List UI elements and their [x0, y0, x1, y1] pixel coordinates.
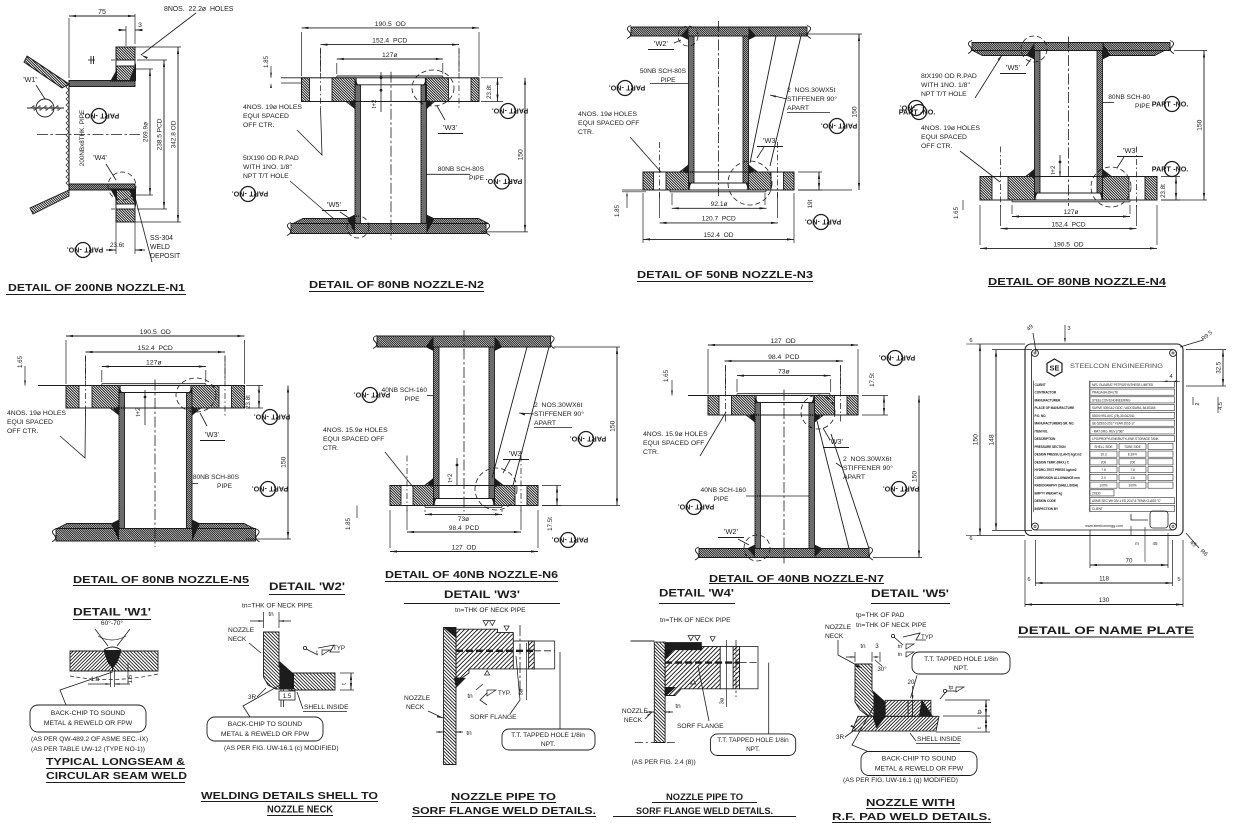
N3 part-no stiffener right — [899, 105, 936, 120]
N4 dim 190.5 OD — [980, 247, 1157, 249]
svg-text:STEELCON ENGINEERING: STEELCON ENGINEERING — [1092, 398, 1131, 402]
svg-text:EMPTY WEIGHT kg: EMPTY WEIGHT kg — [1035, 491, 1063, 495]
svg-text:NECK: NECK — [825, 633, 844, 640]
N6 centerline — [390, 486, 538, 506]
name plate inner rect — [1032, 350, 1177, 531]
N7 dim 127 OD — [708, 344, 858, 346]
svg-text:2 NOS.30WX6t: 2 NOS.30WX6t — [534, 402, 582, 409]
svg-text:PIPE: PIPE — [469, 175, 485, 182]
svg-text:190.5 OD: 190.5 OD — [140, 329, 171, 336]
name plate dim 70 — [1089, 530, 1091, 568]
svg-text:WITH 1NO. 1/8": WITH 1NO. 1/8" — [921, 82, 970, 89]
svg-text:tn=THK OF NECK PIPE: tn=THK OF NECK PIPE — [455, 607, 526, 614]
N3 dim 150 — [798, 33, 862, 35]
N2 dim 127 dia — [337, 58, 443, 60]
detail W5 group — [803, 612, 1010, 823]
N1 dim 3 — [125, 26, 127, 46]
W5 tp t dims right — [943, 715, 990, 717]
svg-text:127 OD: 127 OD — [452, 545, 477, 552]
svg-text:100%: 100% — [1099, 484, 1107, 488]
svg-text:CTR.: CTR. — [323, 445, 339, 452]
svg-text:50NB SCH-80S: 50NB SCH-80S — [640, 68, 687, 75]
svg-text:(AS PER QW-489.2 OF ASME SEC.-: (AS PER QW-489.2 OF ASME SEC.-IX) — [31, 736, 148, 743]
svg-text:PART: PART — [271, 412, 291, 421]
W3 weld symbols top — [483, 621, 495, 626]
N1 flange — [116, 47, 135, 81]
svg-text:150: 150 — [1197, 119, 1204, 131]
N3 part-no pipe — [609, 81, 646, 96]
svg-text:DESCRIPTION: DESCRIPTION — [1035, 437, 1056, 441]
N6 dim 127 OD — [390, 551, 538, 553]
N5 dim 152.4 PCD — [86, 351, 226, 353]
N2 part-no balloon pipe — [486, 174, 523, 189]
svg-text:190.5 OD: 190.5 OD — [375, 21, 406, 28]
svg-text:tn: tn — [268, 611, 274, 618]
N2 centerline — [302, 78, 480, 102]
svg-text:NOZZLE PIPE TO: NOZZLE PIPE TO — [666, 792, 743, 803]
N1 part-no balloon upper — [83, 109, 120, 124]
W2 backchip box — [207, 717, 323, 741]
svg-text:98.4 PCD: 98.4 PCD — [768, 354, 799, 361]
W4 neck bottom centerline — [635, 742, 675, 744]
svg-text:-NO.: -NO. — [805, 217, 820, 226]
svg-text:PIPE: PIPE — [404, 396, 420, 403]
svg-text:-NO.: -NO. — [486, 177, 501, 186]
svg-text:127ø: 127ø — [1063, 209, 1078, 216]
N1 weld deposit marks — [129, 63, 136, 81]
N1 bolt hole dashed lines — [111, 59, 140, 61]
svg-text:TYP: TYP — [333, 645, 345, 652]
W3 tapped hole box — [502, 729, 595, 750]
svg-text:T.T. TAPPED HOLE 1/8in: T.T. TAPPED HOLE 1/8in — [511, 732, 585, 739]
N6 dim t+2 — [456, 458, 458, 486]
svg-text:190.5 OD: 190.5 OD — [1053, 241, 1083, 248]
svg-text:-NO.: -NO. — [354, 390, 369, 399]
N7 part-no stiffener — [883, 482, 920, 497]
svg-text:MANUFACTURER: MANUFACTURER — [1035, 398, 1062, 402]
svg-text:T.T. TAPPED HOLE 1/8in: T.T. TAPPED HOLE 1/8in — [924, 656, 998, 663]
N3 extension below — [671, 193, 673, 205]
W2 weld fillet — [279, 661, 294, 689]
W5 backchip box — [861, 752, 977, 776]
name plate table — [1033, 381, 1035, 513]
svg-text:PART: PART — [822, 217, 842, 226]
svg-text:'W3': 'W3' — [1123, 146, 1137, 155]
name plate group — [966, 324, 1226, 637]
svg-text:t: t — [341, 683, 348, 685]
svg-text:DESIGN TEMP. (MAX.) C: DESIGN TEMP. (MAX.) C — [1035, 460, 1070, 464]
svg-text:-NO.: -NO. — [678, 502, 693, 511]
svg-text:8.3/FV: 8.3/FV — [1128, 453, 1138, 457]
svg-text:70: 70 — [1126, 558, 1133, 565]
svg-text:TYPICAL LONGSEAM &: TYPICAL LONGSEAM & — [46, 756, 185, 768]
svg-text:-NO.: -NO. — [1173, 165, 1188, 174]
N5 extension lines — [65, 340, 67, 384]
svg-text:(AS PER FIG. UW-16.1 (q) MODIF: (AS PER FIG. UW-16.1 (q) MODIFIED) — [843, 777, 958, 784]
W4 bolt centerline — [735, 640, 737, 697]
svg-text:92.1ø: 92.1ø — [711, 201, 728, 208]
svg-text:152.4 PCD: 152.4 PCD — [138, 345, 173, 352]
svg-text:PART: PART — [695, 502, 715, 511]
N5 part-no pipe — [252, 482, 289, 497]
svg-text:PIPE: PIPE — [217, 483, 233, 490]
svg-text:NECK: NECK — [406, 704, 425, 711]
N3 dim 92.1 — [672, 207, 767, 209]
svg-text:NPT.: NPT. — [541, 741, 555, 748]
svg-text:DEPOSIT: DEPOSIT — [150, 253, 181, 260]
detail N2 group — [216, 21, 567, 292]
svg-text:PRAGA 84-294 (78: PRAGA 84-294 (78 — [1092, 391, 1118, 395]
svg-text:tp=THK OF PAD: tp=THK OF PAD — [856, 612, 905, 619]
N3 part-no flange — [805, 215, 842, 230]
steelcon logo — [1047, 359, 1062, 376]
svg-text:tn=THK OF NECK PIPE: tn=THK OF NECK PIPE — [856, 622, 927, 629]
svg-text:'W5': 'W5' — [1006, 63, 1020, 72]
svg-text:NPT.: NPT. — [954, 665, 968, 672]
svg-text:SURVE 539/1&2 GIDC, VADODARA,: SURVE 539/1&2 GIDC, VADODARA, 84-83165 — [1092, 406, 1156, 410]
svg-text:PART: PART — [84, 245, 104, 254]
W4 weld bottom fillet — [665, 687, 676, 697]
svg-text:-NO.: -NO. — [879, 353, 894, 362]
N1 groove detail small — [88, 59, 95, 61]
svg-text:PART: PART — [371, 390, 391, 399]
svg-text:t+2: t+2 — [135, 407, 142, 417]
svg-text:27830: 27830 — [1092, 491, 1101, 495]
W1 weld bead — [104, 650, 121, 668]
svg-text:45: 45 — [1152, 541, 1158, 546]
svg-text:MANUFACTURERS SR. NO.: MANUFACTURERS SR. NO. — [1035, 422, 1075, 426]
svg-text:PART: PART — [900, 484, 920, 493]
N4 dim t+2 — [1059, 155, 1061, 177]
svg-text:CLIENT: CLIENT — [1092, 507, 1103, 511]
W3 tapped hole dashed — [456, 650, 534, 652]
svg-text:CTR.: CTR. — [578, 129, 594, 136]
N7 dim 150 — [873, 557, 922, 559]
N3 stiffener — [750, 36, 776, 163]
N2 flange left extension — [281, 77, 302, 79]
N1 shell vertical line — [68, 84, 70, 190]
svg-text:METAL & REWELD OR FPW: METAL & REWELD OR FPW — [44, 720, 133, 727]
svg-text:tn: tn — [467, 693, 473, 700]
N6 dim 150 — [542, 505, 620, 507]
svg-text:M/S. GUJARAT PETROSYNTHESE LIM: M/S. GUJARAT PETROSYNTHESE LIMITED — [1092, 383, 1154, 387]
svg-text:-NO.: -NO. — [492, 106, 507, 115]
svg-text:tn: tn — [675, 703, 681, 710]
svg-text:HYDRO-TEST PRESS kg/cm2: HYDRO-TEST PRESS kg/cm2 — [1035, 468, 1077, 472]
svg-text:73ø: 73ø — [458, 516, 469, 523]
N2 extension lines — [301, 32, 303, 76]
N4 dim 150 — [1174, 50, 1207, 52]
svg-text:EQUI SPACED: EQUI SPACED — [921, 134, 967, 141]
N1 dim 238.5 PCD — [140, 59, 167, 61]
detail N3 group — [542, 21, 936, 282]
svg-text:200NBx8THK. PIPE: 200NBx8THK. PIPE — [79, 110, 86, 166]
N1 shell break top-left — [27, 56, 69, 84]
svg-text:SORF FLANGE: SORF FLANGE — [470, 714, 517, 721]
svg-text:1.5: 1.5 — [283, 693, 292, 700]
svg-text:6: 6 — [969, 536, 972, 542]
svg-text:16.3: 16.3 — [1100, 453, 1106, 457]
svg-text:23.8t: 23.8t — [486, 85, 493, 99]
svg-text:'W3': 'W3' — [829, 437, 843, 446]
svg-text:EQUI SPACED OFF: EQUI SPACED OFF — [643, 440, 704, 447]
svg-text:19t: 19t — [807, 199, 814, 208]
svg-text:NPT T/T HOLE: NPT T/T HOLE — [921, 91, 967, 98]
W3 weld top black — [444, 628, 457, 639]
svg-text:PLACE OF MANUFACTURE: PLACE OF MANUFACTURE — [1035, 406, 1075, 410]
svg-text:STIFFENER 90°: STIFFENER 90° — [843, 464, 893, 472]
svg-text:3: 3 — [1067, 326, 1070, 332]
svg-text:1.85: 1.85 — [263, 55, 270, 68]
svg-text:269.9ø: 269.9ø — [143, 122, 150, 142]
svg-text:5tX190 OD R.PAD: 5tX190 OD R.PAD — [243, 155, 299, 162]
svg-text:100%: 100% — [1128, 484, 1136, 488]
svg-text:CORROSION ALLOWANCE mm: CORROSION ALLOWANCE mm — [1035, 476, 1081, 480]
svg-text:23.8t: 23.8t — [1160, 184, 1167, 198]
svg-text:P.O. NO.: P.O. NO. — [1035, 414, 1047, 418]
svg-text:4.5: 4.5 — [1218, 402, 1224, 410]
svg-text:3R: 3R — [248, 694, 257, 701]
N1 part-no balloon lower — [67, 243, 104, 258]
svg-text:80NB SCH-80S: 80NB SCH-80S — [193, 474, 240, 481]
svg-text:TYP: TYP — [921, 634, 933, 641]
svg-text:STIFFENER 90°: STIFFENER 90° — [787, 95, 837, 103]
svg-text:PART: PART — [626, 83, 646, 92]
N6 dim 98.4 PCD — [407, 531, 521, 533]
svg-text:METAL & REWELD OR FPW: METAL & REWELD OR FPW — [221, 731, 310, 738]
detail W2 group — [201, 581, 378, 816]
W2 1.5 box — [279, 691, 295, 700]
svg-text:8NOS. 22.2ø HOLES: 8NOS. 22.2ø HOLES — [164, 6, 234, 13]
N2 dim 190.5 OD — [302, 27, 480, 29]
svg-text:tn: tn — [466, 730, 472, 737]
svg-text:PIPE: PIPE — [1135, 103, 1151, 110]
svg-text:127 OD: 127 OD — [770, 338, 795, 345]
svg-text:-NO.: -NO. — [570, 434, 585, 443]
svg-text:PART: PART — [269, 484, 289, 493]
svg-text:WELD: WELD — [150, 244, 170, 251]
svg-text:DETAIL OF 40NB NOZZLE-N6: DETAIL OF 40NB NOZZLE-N6 — [385, 570, 559, 581]
W2 t dim right — [340, 672, 354, 674]
svg-text:150: 150 — [518, 149, 525, 161]
N5 label W3 — [200, 413, 207, 426]
detail N1 group — [0, 6, 234, 295]
svg-text:PART: PART — [896, 353, 916, 362]
W5 tapped hole box — [912, 652, 1010, 674]
N1 centerline — [37, 134, 140, 136]
N6 stiffener — [492, 347, 527, 478]
svg-text:7.8: 7.8 — [1130, 468, 1135, 472]
N5 dim 127 dia — [102, 366, 206, 368]
svg-text:NOZZLE: NOZZLE — [404, 695, 431, 702]
svg-text:127ø: 127ø — [146, 360, 162, 367]
svg-text:200: 200 — [1101, 460, 1107, 464]
svg-text:NPT T/T HOLE: NPT T/T HOLE — [243, 173, 289, 180]
W3 centerline vertical — [519, 625, 521, 695]
svg-text:EQUI SPACED: EQUI SPACED — [243, 113, 289, 120]
svg-text:SS-304: SS-304 — [150, 235, 173, 242]
svg-text:342.8 OD: 342.8 OD — [171, 120, 178, 148]
svg-text:DETAIL 'W4': DETAIL 'W4' — [659, 588, 734, 600]
svg-text:SHELL INSIDE: SHELL INSIDE — [917, 736, 962, 743]
svg-text:127ø: 127ø — [382, 52, 398, 59]
svg-text:-NO.: -NO. — [609, 83, 624, 92]
svg-text:4NOS. 19ø HOLES: 4NOS. 19ø HOLES — [7, 410, 66, 417]
svg-text:NECK: NECK — [624, 717, 643, 724]
N5 dim 190.5 OD — [66, 335, 245, 337]
svg-text:PART: PART — [1152, 100, 1172, 109]
N6 part-no pipe — [354, 388, 391, 403]
svg-text:98.4 PCD: 98.4 PCD — [449, 525, 480, 532]
svg-text:tp: tp — [949, 685, 954, 691]
svg-text:(AS PER TABLE UW-12 (TYPE NO-1: (AS PER TABLE UW-12 (TYPE NO-1)) — [31, 746, 145, 753]
svg-text:'W1': 'W1' — [23, 75, 37, 84]
svg-text:ASME SEC VIII DIV-1 ED 2017 &: ASME SEC VIII DIV-1 ED 2017 & TEMA CLASS… — [1092, 499, 1161, 503]
svg-text:TYP.: TYP. — [498, 690, 511, 697]
N6 extension below — [424, 510, 426, 512]
svg-text:152.4 PCD: 152.4 PCD — [1051, 222, 1085, 229]
N4 part-no pipe — [1152, 97, 1189, 112]
svg-text:(AS PER FIG. 2.4 (8)): (AS PER FIG. 2.4 (8)) — [632, 759, 696, 766]
svg-text:75: 75 — [98, 9, 106, 16]
svg-text:SHELL INSIDE: SHELL INSIDE — [304, 704, 349, 711]
W3 weld bottom fillet — [454, 678, 466, 688]
svg-text:APART: APART — [534, 420, 556, 427]
name plate outer rect — [1025, 344, 1183, 536]
svg-text:238.5 PCD: 238.5 PCD — [157, 118, 164, 150]
svg-text:-NO.: -NO. — [1173, 100, 1188, 109]
svg-text:2.0: 2.0 — [1101, 476, 1106, 480]
svg-text:t+2: t+2 — [371, 99, 378, 109]
svg-text:118: 118 — [1099, 576, 1109, 583]
svg-text:150: 150 — [281, 456, 288, 468]
svg-text:DETAIL 'W1': DETAIL 'W1' — [73, 607, 151, 619]
svg-text:APART: APART — [787, 105, 809, 112]
N2 dim t+2 — [380, 72, 382, 112]
svg-text:BACK-CHIP TO SOUND: BACK-CHIP TO SOUND — [882, 756, 956, 763]
svg-text:NOZZLE: NOZZLE — [825, 624, 852, 631]
svg-text:150: 150 — [973, 434, 980, 446]
name plate dim 148 — [992, 349, 1032, 351]
name plate screw holes — [1032, 350, 1039, 357]
svg-text:CIRCULAR SEAM WELD: CIRCULAR SEAM WELD — [46, 770, 187, 782]
svg-text:6: 6 — [969, 338, 972, 344]
svg-text:PART: PART — [100, 111, 120, 120]
svg-text:t+2: t+2 — [1050, 165, 1057, 175]
svg-text:8tX190 OD R.PAD: 8tX190 OD R.PAD — [921, 73, 977, 80]
N4 centerline — [980, 177, 1157, 201]
W4 tapped hole box — [710, 734, 795, 756]
svg-text:200: 200 — [1130, 460, 1136, 464]
W4 flange right extension — [740, 646, 758, 688]
W2 typ flag — [303, 646, 306, 649]
svg-text:'W2': 'W2' — [724, 527, 738, 536]
svg-text:150: 150 — [852, 106, 859, 118]
svg-text:40NB SCH-160: 40NB SCH-160 — [701, 487, 747, 494]
svg-text:3R: 3R — [836, 734, 845, 741]
svg-text:4NOS. 19ø HOLES: 4NOS. 19ø HOLES — [921, 125, 980, 132]
svg-text:DETAIL 'W5': DETAIL 'W5' — [871, 588, 949, 600]
W1 plate dashed root — [70, 674, 158, 680]
svg-text:DETAIL OF 80NB NOZZLE-N5: DETAIL OF 80NB NOZZLE-N5 — [73, 575, 250, 586]
W1 backchip box — [30, 705, 146, 732]
svg-text:SE: SE — [1049, 364, 1059, 373]
svg-text:tn=THK OF NECK PIPE: tn=THK OF NECK PIPE — [660, 617, 731, 624]
svg-text:148: 148 — [989, 434, 996, 446]
N1 dim 75 — [68, 18, 70, 78]
svg-text:NOZZLE: NOZZLE — [228, 627, 255, 634]
W5 weld black left — [874, 691, 886, 716]
N3 dim 152.4 OD — [643, 238, 794, 240]
svg-text:'W4': 'W4' — [93, 153, 107, 162]
svg-text:tp: tp — [977, 710, 983, 715]
name plate dim 3 top — [1064, 325, 1066, 341]
svg-text:DETAIL OF NAME PLATE: DETAIL OF NAME PLATE — [1018, 625, 1194, 637]
svg-text:WITH 1NO. 1/8": WITH 1NO. 1/8" — [243, 164, 292, 171]
svg-text:PIPE: PIPE — [713, 496, 729, 503]
svg-text:4NOS. 19ø HOLES: 4NOS. 19ø HOLES — [578, 111, 637, 118]
svg-text:NECK: NECK — [228, 636, 247, 643]
svg-text:NOZZLE WITH: NOZZLE WITH — [866, 797, 955, 809]
svg-text:120.7 PCD: 120.7 PCD — [702, 215, 736, 222]
svg-text:'W5': 'W5' — [327, 200, 341, 209]
N7 extension above — [707, 349, 709, 394]
detail N7 group — [609, 338, 961, 604]
svg-text:CLIENT: CLIENT — [1035, 383, 1046, 387]
W4 shell line top — [631, 640, 655, 642]
N7 part-no pipe — [678, 500, 715, 515]
N4 extension below — [1011, 205, 1013, 214]
N2 dim 150 — [481, 231, 528, 233]
svg-text:-NO.: -NO. — [883, 484, 898, 493]
svg-text:METAL & REWELD OR FPW: METAL & REWELD OR FPW — [875, 766, 964, 773]
svg-text:PART: PART — [569, 535, 589, 544]
name plate dim 130 — [1024, 540, 1026, 607]
svg-text:PRESSURE SECTION: PRESSURE SECTION — [1035, 445, 1067, 449]
svg-text:(AS PER FIG. UW-16.1 (c) MODIF: (AS PER FIG. UW-16.1 (c) MODIFIED) — [224, 745, 339, 752]
N2 W3 dashed circle — [412, 70, 454, 106]
svg-text:SHELL SIDE: SHELL SIDE — [1094, 445, 1112, 449]
svg-text:t+2: t+2 — [447, 473, 454, 483]
svg-text:LPG/PROPYLENE/BUTYLENE STORAGE: LPG/PROPYLENE/BUTYLENE STORAGE TANK — [1092, 437, 1159, 441]
detail W3 group — [307, 607, 597, 817]
svg-text:DETAIL OF 80NB NOZZLE-N2: DETAIL OF 80NB NOZZLE-N2 — [309, 280, 485, 291]
N1 dim 23.6t — [115, 222, 117, 254]
svg-text:ITEM NO.: ITEM NO. — [1035, 429, 1049, 433]
svg-text:PART: PART — [503, 177, 523, 186]
svg-text:- MAT DRG. REV (7067: - MAT DRG. REV (7067 — [1092, 429, 1124, 433]
svg-text:'W2': 'W2' — [654, 39, 668, 48]
svg-text:STEELCON ENGINEERING: STEELCON ENGINEERING — [1070, 363, 1163, 370]
svg-text:-NO.: -NO. — [821, 121, 836, 130]
detail W1 group — [30, 607, 187, 783]
N2 part-no balloon left — [232, 187, 269, 202]
svg-text:4NOS. 15.9ø HOLES: 4NOS. 15.9ø HOLES — [323, 427, 388, 434]
N5 W3 dashed circle — [176, 378, 216, 412]
W4 weld symbols — [688, 636, 700, 641]
svg-text:EQUI SPACED OFF: EQUI SPACED OFF — [323, 436, 384, 443]
N7 part-no top — [879, 351, 916, 366]
svg-text:www.steelconengg.com: www.steelconengg.com — [1085, 524, 1123, 528]
N7 stiffener — [817, 421, 849, 549]
name plate dim 150 left — [977, 343, 1025, 345]
svg-text:SORF FLANGE WELD DETAILS.: SORF FLANGE WELD DETAILS. — [636, 806, 773, 817]
detail W4 group — [554, 617, 796, 817]
svg-text:30°: 30° — [877, 666, 887, 673]
svg-text:PART: PART — [587, 434, 607, 443]
detail N6 group — [282, 330, 647, 604]
N4 dim 127 — [1012, 216, 1130, 218]
